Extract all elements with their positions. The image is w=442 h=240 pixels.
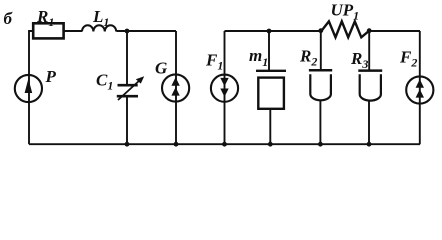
node at C1 top — [125, 29, 130, 34]
node bottom R2 — [318, 142, 323, 147]
resistor R3 — [350, 49, 382, 101]
wire C1 branch — [126, 31, 128, 144]
node at m1 top — [267, 29, 272, 34]
resistor R1 — [33, 7, 63, 38]
resistor UP1 (zigzag) — [322, 1, 370, 38]
source F1 — [205, 51, 238, 102]
node bottom F1 — [222, 142, 227, 147]
wire F1 branch — [224, 31, 226, 144]
capacitor C1 (variable) — [96, 71, 144, 101]
node bottom G — [174, 142, 179, 147]
node bottom R3 — [367, 142, 372, 147]
source F2 — [399, 48, 433, 104]
wire right rail — [225, 30, 421, 32]
wire G branch — [175, 31, 177, 144]
wire R2 branch — [319, 31, 321, 144]
label б — [4, 9, 14, 28]
element m1 — [249, 46, 286, 109]
node bottom m1 — [268, 142, 273, 147]
wire m1 branch — [269, 31, 270, 144]
svg-text:P: P — [45, 67, 57, 86]
wire left vertical (P branch) — [28, 31, 30, 144]
node at R2 top — [318, 28, 323, 33]
resistor R2 — [299, 46, 332, 100]
wire bottom rail — [29, 143, 420, 145]
source P — [15, 67, 57, 102]
wire R3 branch — [368, 31, 370, 144]
svg-text:G: G — [155, 59, 168, 78]
wire top-left rail — [28, 30, 176, 32]
node bottom C1 — [125, 142, 130, 147]
wire F2 branch — [419, 31, 421, 144]
source G — [155, 59, 189, 102]
inductor L1 — [82, 7, 116, 32]
node at R3 top — [367, 28, 372, 33]
